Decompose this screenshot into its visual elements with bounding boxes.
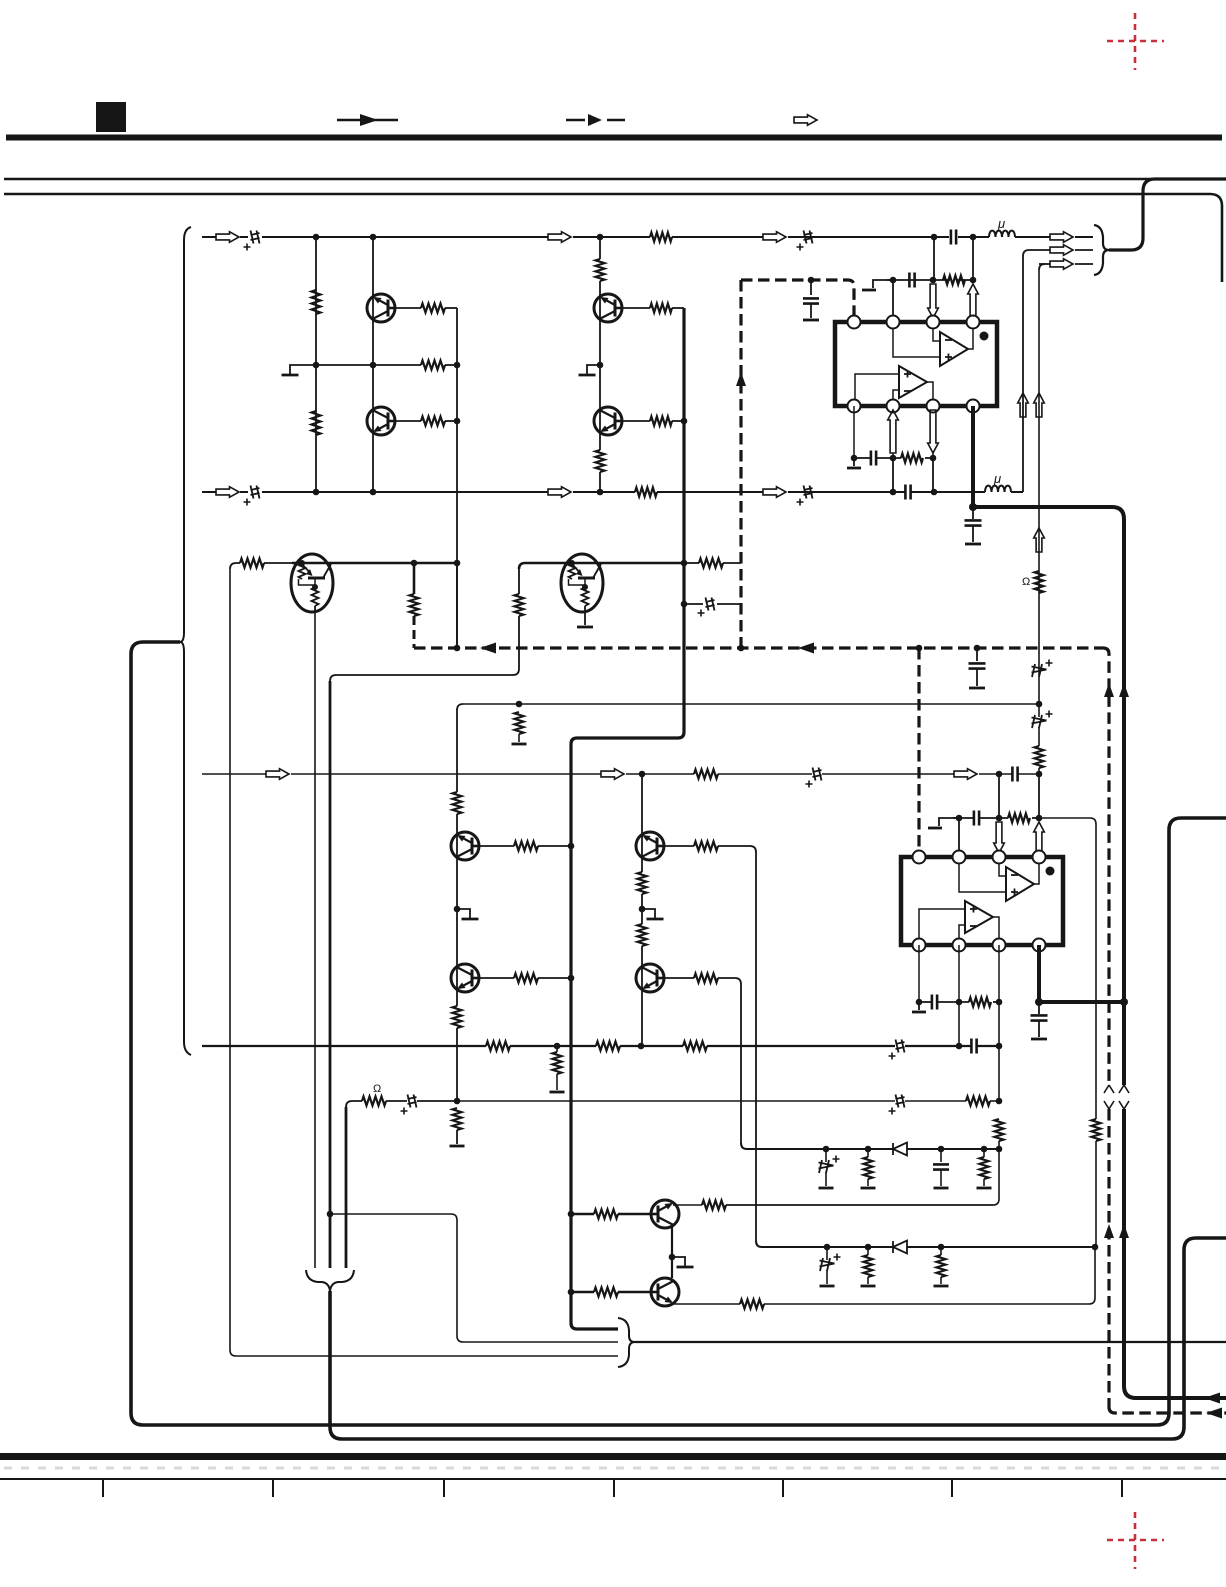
digital transistor Q6 oval bbox=[562, 562, 604, 565]
resistor x600 lower bbox=[596, 450, 605, 472]
resistor rail4 b bbox=[596, 1042, 620, 1051]
output arrow ch2 bbox=[1050, 245, 1073, 256]
wire oval1 to nodes bbox=[334, 562, 457, 565]
wire IC2 bottom row y1002 bbox=[919, 1001, 931, 1003]
signal arrow rail1 mid bbox=[548, 232, 571, 243]
wire diode row1 bbox=[741, 1143, 893, 1149]
transistor Q3 bbox=[594, 294, 622, 322]
capacitor rail3 coupling bbox=[1012, 767, 1017, 782]
capacitor IC1 top bbox=[909, 273, 914, 288]
node Q11 base feed bbox=[568, 1211, 575, 1218]
wire oval row left bbox=[230, 563, 240, 569]
diode D2 bbox=[893, 1241, 907, 1254]
wire y704 bbox=[463, 703, 1039, 705]
wire brace-mid output y1342 bbox=[635, 1341, 1226, 1343]
wire U1b inputs bbox=[855, 374, 899, 399]
node diode row2 bbox=[824, 1244, 831, 1251]
thick wire brace-left output down x330 bbox=[330, 1238, 1226, 1439]
capacitor rail2 coupling bbox=[905, 485, 910, 500]
resistor x642 lower bbox=[638, 924, 647, 946]
arrow up output v1 bbox=[1018, 393, 1029, 417]
resistor rail3 bbox=[694, 770, 718, 779]
wire rail4 bbox=[202, 1045, 486, 1047]
resistor Q2 base bbox=[395, 420, 421, 422]
resistor oval1 input bbox=[240, 559, 264, 568]
wire IC2 output thick bbox=[1037, 945, 1041, 1002]
transistor Q1 bbox=[367, 294, 395, 322]
op-amp U1b bbox=[899, 366, 927, 398]
arrow up from IC2 pin4 bbox=[1034, 822, 1045, 853]
ruler tick 5 bbox=[782, 1479, 784, 1497]
wire row1101 bbox=[346, 1101, 362, 1107]
wire x999 rail3 to IC2 row bbox=[998, 774, 1000, 818]
registration cross bottom right bbox=[1107, 1512, 1164, 1569]
resistor x457 to ground bbox=[453, 1108, 462, 1130]
wire rail2 bbox=[202, 491, 216, 493]
wire oval1 emitter down x315 bbox=[314, 613, 316, 1268]
signal arrow rail2 mid bbox=[548, 487, 571, 498]
arrow left on dashed rail 2 bbox=[798, 643, 814, 654]
ground IC1 top row bbox=[873, 280, 893, 288]
capacitor IC2 top bbox=[974, 811, 979, 826]
node rail3 right bbox=[996, 771, 1003, 778]
arrow up bus x1124 b bbox=[1119, 1224, 1129, 1238]
node Q12 base feed bbox=[568, 1289, 575, 1296]
page bottom ruler line bbox=[0, 1478, 1226, 1480]
node x999 y1149 bbox=[996, 1146, 1003, 1153]
node x1039 y704 bbox=[1036, 701, 1043, 708]
ruler tick 1 bbox=[102, 1479, 104, 1497]
transistor Q9 bbox=[636, 832, 664, 860]
arrow left on dashed rail bbox=[480, 643, 496, 654]
registration cross top right bbox=[1107, 13, 1164, 70]
signal arrow rail3 mid bbox=[601, 769, 624, 780]
resistor x519 to ground bbox=[515, 712, 524, 734]
capacitor C+ row1101 right bbox=[896, 1095, 905, 1108]
wire brace to top bus bbox=[1109, 179, 1226, 250]
IC1 pin circles top bbox=[848, 316, 861, 329]
wire x999 corner to C collector bbox=[726, 1149, 999, 1205]
capacitor IC1 output to ground bbox=[972, 507, 974, 519]
wire output row3 top bbox=[1039, 263, 1050, 265]
node rail2 junctions bbox=[313, 489, 320, 496]
inductor L1 mu bbox=[989, 231, 1015, 237]
wire IC1 top row y280 bbox=[887, 279, 950, 281]
resistor branch x868 bbox=[867, 1149, 869, 1157]
ground IC2 bottom row bbox=[918, 1002, 920, 1010]
resistor rail4 c bbox=[683, 1042, 707, 1051]
wire rail3 bbox=[202, 773, 266, 775]
node y704 x519 bbox=[516, 701, 523, 708]
IC2 pin1 mark bbox=[1046, 867, 1055, 876]
resistor IC1 top bbox=[943, 276, 965, 285]
wire U1b output bbox=[927, 382, 933, 399]
capacitor IC2 output to ground bbox=[1038, 1002, 1040, 1014]
node rail1 junctions bbox=[313, 234, 320, 241]
resistor IC2 top bbox=[1008, 814, 1030, 823]
wire x457 to dashed rail bbox=[456, 563, 458, 648]
wire divider column x316 bbox=[315, 237, 317, 492]
ground IC1 bottom row bbox=[853, 458, 855, 466]
capacitor C+ rail3 bbox=[813, 768, 822, 781]
wire rail1 bbox=[202, 236, 216, 238]
dashed wire to IC1 pin1 bbox=[741, 280, 854, 322]
resistor x600 upper bbox=[596, 259, 605, 281]
wire IC2 top row y818 bbox=[953, 817, 973, 819]
arrow up dashed x1109 b bbox=[1104, 1224, 1114, 1238]
resistor Q12 base bbox=[571, 1291, 594, 1293]
svg-text:μ: μ bbox=[993, 471, 1001, 486]
dashed rail y648 bbox=[414, 646, 1103, 649]
wire U2a output bbox=[1034, 864, 1039, 884]
wire Q3 feedback corner x684 bbox=[571, 308, 684, 1329]
resistor x414 bbox=[410, 594, 419, 616]
wire Q9 corner down x756 bbox=[755, 852, 757, 1241]
brace gather bottom-mid bbox=[618, 1318, 635, 1367]
break symbol x1124 bbox=[1119, 1085, 1129, 1109]
node diode row1 bbox=[823, 1146, 830, 1153]
legend dashed signal arrow bbox=[566, 119, 585, 122]
resistor x457 top bbox=[453, 792, 462, 814]
resistor IC2 bottom bbox=[969, 998, 991, 1007]
node rail4 bbox=[554, 1043, 561, 1050]
wire IC1 pin2 stub bbox=[892, 280, 894, 322]
resistor rail2 bbox=[635, 488, 657, 497]
wire Q1 feedback corner x457 bbox=[456, 308, 458, 648]
wire x230 long down bbox=[229, 569, 231, 1350]
dashed bottom out to edge bbox=[1109, 1407, 1226, 1413]
op-amp IC1 body bbox=[835, 322, 997, 406]
wire IC2 row corner to x1095 bbox=[1039, 818, 1096, 1119]
node IC2 top row bbox=[956, 815, 963, 822]
wire IC1 row to rail2 bbox=[892, 458, 894, 492]
page bottom grey dashes bbox=[4, 1467, 1222, 1470]
ground IC2 top row bbox=[939, 818, 959, 826]
resistor branch row2 x868 bbox=[867, 1247, 869, 1255]
arrow left bus out bbox=[1204, 1393, 1220, 1404]
wire IC1 output thick bbox=[971, 406, 975, 507]
digital transistor Q5 oval bbox=[292, 562, 334, 565]
ground Q3Q4 mid bbox=[587, 365, 600, 374]
arrow up dashed x1109 a bbox=[1104, 683, 1114, 697]
output arrow ch3 bbox=[1050, 259, 1073, 270]
resistor Q7 base bbox=[479, 845, 514, 847]
wire x519 resistor branch bbox=[518, 569, 520, 594]
node IC1 top row bbox=[890, 277, 897, 284]
capacitor rail4 coupling bbox=[971, 1039, 976, 1054]
svg-text:μ: μ bbox=[997, 216, 1005, 231]
resistor Q10 base bbox=[664, 977, 694, 979]
dashed break symbol x1109 bbox=[1104, 1085, 1114, 1109]
capacitor C+ x684 to dashed bbox=[684, 603, 703, 605]
wire oval2 row bbox=[519, 563, 562, 569]
resistor row1101 left ohm bbox=[362, 1097, 386, 1106]
node IC1 bottom row bbox=[851, 455, 858, 462]
IC1 pin circles bottom bbox=[848, 400, 861, 413]
wire x1039 outputs chain bbox=[1038, 270, 1040, 704]
ground mid row left bbox=[290, 365, 303, 374]
wire IC1 bottom row y458 bbox=[854, 457, 870, 459]
resistor branch row2 x941 bbox=[940, 1247, 942, 1255]
arrow up output v2 bbox=[1034, 393, 1045, 417]
wire x457 lower chain bbox=[456, 710, 458, 792]
wire Q12 emitter row y1304 bbox=[674, 1303, 740, 1305]
resistor branch x984 bbox=[983, 1149, 985, 1157]
wire x330 long down bbox=[329, 681, 332, 1268]
resistor x999 vert bbox=[995, 1119, 1004, 1141]
thick wire IC2 out to bus bbox=[1039, 1000, 1124, 1004]
diode D1 bbox=[893, 1143, 907, 1156]
wire diode row2 bbox=[756, 1241, 893, 1247]
dashed corner x1109 down bbox=[1103, 648, 1109, 1085]
wire y1214 from x330 bbox=[327, 1211, 334, 1218]
node row1101 x999 bbox=[996, 1098, 1003, 1105]
IC2 pin circles top bbox=[913, 851, 926, 864]
wire y675 to x330 bbox=[336, 674, 513, 676]
node dashed y280 x811 bbox=[808, 277, 815, 284]
resistor IC1 bottom bbox=[901, 454, 923, 463]
node row1101 x457 bbox=[454, 1098, 461, 1105]
resistor x1039 to rail3 bbox=[1038, 727, 1040, 746]
capacitor C+ rail1 right bbox=[804, 231, 813, 244]
left input brace bbox=[180, 227, 191, 1055]
capacitor rail1 coupling bbox=[951, 230, 956, 245]
ruler tick 7 bbox=[1121, 1479, 1123, 1497]
resistor R upper x316 bbox=[312, 290, 321, 314]
node dashed rail x977 bbox=[974, 645, 981, 652]
signal arrow rail3 right bbox=[954, 769, 977, 780]
wire x1039 rail3 to IC2 row bbox=[1038, 774, 1040, 818]
ruler tick 2 bbox=[272, 1479, 274, 1497]
capacitor branch x941 bbox=[940, 1149, 942, 1162]
wire Q11 emitter to ground node bbox=[671, 1225, 673, 1278]
dashed wire vertical x741 bbox=[739, 280, 742, 648]
arrow up to IC1 pin6 bbox=[888, 410, 899, 453]
dashed wire x919 bbox=[917, 648, 920, 857]
header thin rule 2 with right corner down bbox=[4, 194, 1222, 282]
signal arrow rail3 in bbox=[266, 769, 289, 780]
wire IC2 pin5 stub bbox=[918, 945, 920, 1002]
wire x959 to rail4 bbox=[958, 1002, 960, 1046]
signal arrow rail1 right bbox=[763, 232, 786, 243]
arrow down to IC1 pin3 bbox=[928, 284, 939, 318]
brace gather bottom-left bbox=[306, 1270, 354, 1291]
wire Q11 collector row y1205 bbox=[673, 1204, 702, 1206]
wire U1a inputs bbox=[933, 329, 940, 341]
wire U2b inputs bbox=[919, 909, 965, 938]
resistor Q4 base bbox=[622, 420, 650, 422]
signal arrow rail2 in bbox=[216, 487, 239, 498]
wire U1a output bbox=[968, 329, 973, 349]
capacitor C+ rail2 right bbox=[804, 486, 813, 499]
ruler tick 6 bbox=[951, 1479, 953, 1497]
thick main loop left x131 and bottom y1425 bbox=[131, 642, 1226, 1425]
wire x642 chain bbox=[641, 774, 643, 872]
capacitor IC2 bottom bbox=[932, 995, 937, 1010]
wire transistor column x373 bbox=[372, 237, 374, 492]
wire Q10 corner down x741 bbox=[740, 984, 742, 1143]
svg-text:Ω: Ω bbox=[1022, 576, 1030, 588]
resistor rail4 a bbox=[486, 1042, 510, 1051]
op-amp U2a bbox=[1006, 867, 1034, 901]
transistor Q8 bbox=[451, 964, 479, 992]
ruler tick 4 bbox=[613, 1479, 615, 1497]
branch x414 to dashed rail bbox=[413, 563, 416, 594]
resistor x642 upper bbox=[638, 872, 647, 894]
header thin rule 1 bbox=[4, 178, 1226, 181]
section marker square bbox=[96, 102, 126, 132]
resistor Q3 base bbox=[622, 307, 650, 309]
resistor Q8 base bbox=[479, 977, 514, 979]
wire IC2 pin7 stub bbox=[998, 945, 1000, 1002]
thick output bus right x1124 bbox=[973, 507, 1124, 1085]
op-amp U1a bbox=[940, 332, 968, 366]
node ground Q7Q8 bbox=[454, 906, 461, 913]
transistor Q4 bbox=[594, 407, 622, 435]
capacitor x811 to ground bbox=[810, 280, 812, 295]
transistor Q11 bbox=[651, 1200, 679, 1228]
capacitor C+ branch x826 bbox=[825, 1149, 827, 1162]
resistor row1101 right bbox=[966, 1097, 990, 1106]
capacitor C+ rail2 left bbox=[251, 486, 260, 499]
wire x346 down to brace bbox=[345, 1107, 348, 1268]
arrow up from IC1 pin4 bbox=[968, 284, 979, 318]
resistor Q11 base bbox=[571, 1213, 594, 1215]
resistor rail1 bbox=[650, 233, 672, 242]
wire x999 to rail4 and row1101 bbox=[998, 1002, 1000, 1101]
wire mid row y365 bbox=[303, 364, 421, 366]
legend solid signal arrow bbox=[337, 119, 398, 122]
node rail3 x642 bbox=[639, 771, 646, 778]
transistor Q10 bbox=[636, 964, 664, 992]
arrow up x1039 bbox=[1034, 528, 1045, 552]
resistor Q1 base bbox=[395, 307, 421, 309]
ruler tick 3 bbox=[443, 1479, 445, 1497]
arrow left dashed out bbox=[1206, 1408, 1222, 1419]
capacitor C+ rail4 bbox=[896, 1040, 905, 1053]
resistor x457 bottom bbox=[453, 1006, 462, 1028]
capacitor C+ x1039 lower bbox=[1038, 704, 1040, 717]
inductor L2 mu bbox=[985, 486, 1011, 492]
wire rail1 to IC1 row bbox=[933, 237, 935, 280]
signal arrow rail1 in bbox=[216, 232, 239, 243]
node IC2 bottom row bbox=[916, 999, 923, 1006]
capacitor C+ branch row2 x827 bbox=[826, 1247, 828, 1260]
arrow down from IC1 pin7 bbox=[928, 410, 939, 453]
capacitor C+ row1101 left bbox=[408, 1095, 417, 1108]
node mid row bbox=[313, 362, 320, 369]
wire IC2 pin6 stub bbox=[958, 945, 960, 1002]
resistor R lower x316 bbox=[312, 411, 321, 435]
output arrow ch1 bbox=[1050, 232, 1073, 243]
resistor x1096 bbox=[1092, 1119, 1101, 1141]
capacitor x977 to ground bbox=[976, 648, 978, 661]
wire IC2 pin2 stub bbox=[958, 818, 960, 857]
resistor oval2 right bbox=[684, 562, 699, 564]
wire y1356 from x230 bbox=[230, 1350, 618, 1356]
node ground Q9Q10 bbox=[639, 906, 646, 913]
capacitor IC1 bottom bbox=[871, 451, 876, 466]
resistor x557 to ground bbox=[556, 1046, 558, 1052]
wire IC1 pin5 stub bbox=[853, 406, 855, 458]
arrow up bus x1124 a bbox=[1119, 683, 1129, 697]
capacitor C+ rail1 left bbox=[251, 231, 260, 244]
wire transistor column x600 bbox=[599, 237, 601, 259]
transistor Q2 bbox=[367, 407, 395, 435]
IC2 pin circles bottom bbox=[913, 939, 926, 952]
arrow up on dashed x741 bbox=[736, 372, 746, 386]
resistor Q9 base bbox=[664, 845, 694, 847]
svg-text:Ω: Ω bbox=[373, 1083, 381, 1095]
op-amp U2b bbox=[965, 901, 993, 933]
transistor Q7 bbox=[451, 832, 479, 860]
output brace bbox=[1094, 225, 1109, 275]
node dashed rail x741 bbox=[738, 645, 745, 652]
ground oval2 emitter bbox=[584, 612, 586, 625]
signal arrow rail2 right bbox=[763, 487, 786, 498]
op-amp IC2 body bbox=[901, 857, 1063, 945]
IC1 pin1 mark bbox=[980, 332, 989, 341]
header thick rule bbox=[6, 135, 1222, 141]
wire U2a inputs bbox=[999, 864, 1006, 876]
transistor Q12 bbox=[651, 1278, 679, 1306]
legend hollow signal arrow bbox=[794, 115, 817, 126]
node dashed rail x919 bbox=[916, 645, 923, 652]
arrow down to IC2 pin3 bbox=[994, 822, 1005, 853]
page bottom thick band bbox=[0, 1453, 1226, 1460]
node x684 lower bbox=[681, 601, 688, 608]
wire oval2 to node x684 bbox=[604, 562, 684, 565]
capacitor C+ x1039 upper bbox=[1032, 664, 1047, 677]
wire output row2 bbox=[1023, 250, 1050, 492]
wire U2b output bbox=[993, 917, 999, 938]
resistor x1039 ohm bbox=[1035, 571, 1044, 593]
